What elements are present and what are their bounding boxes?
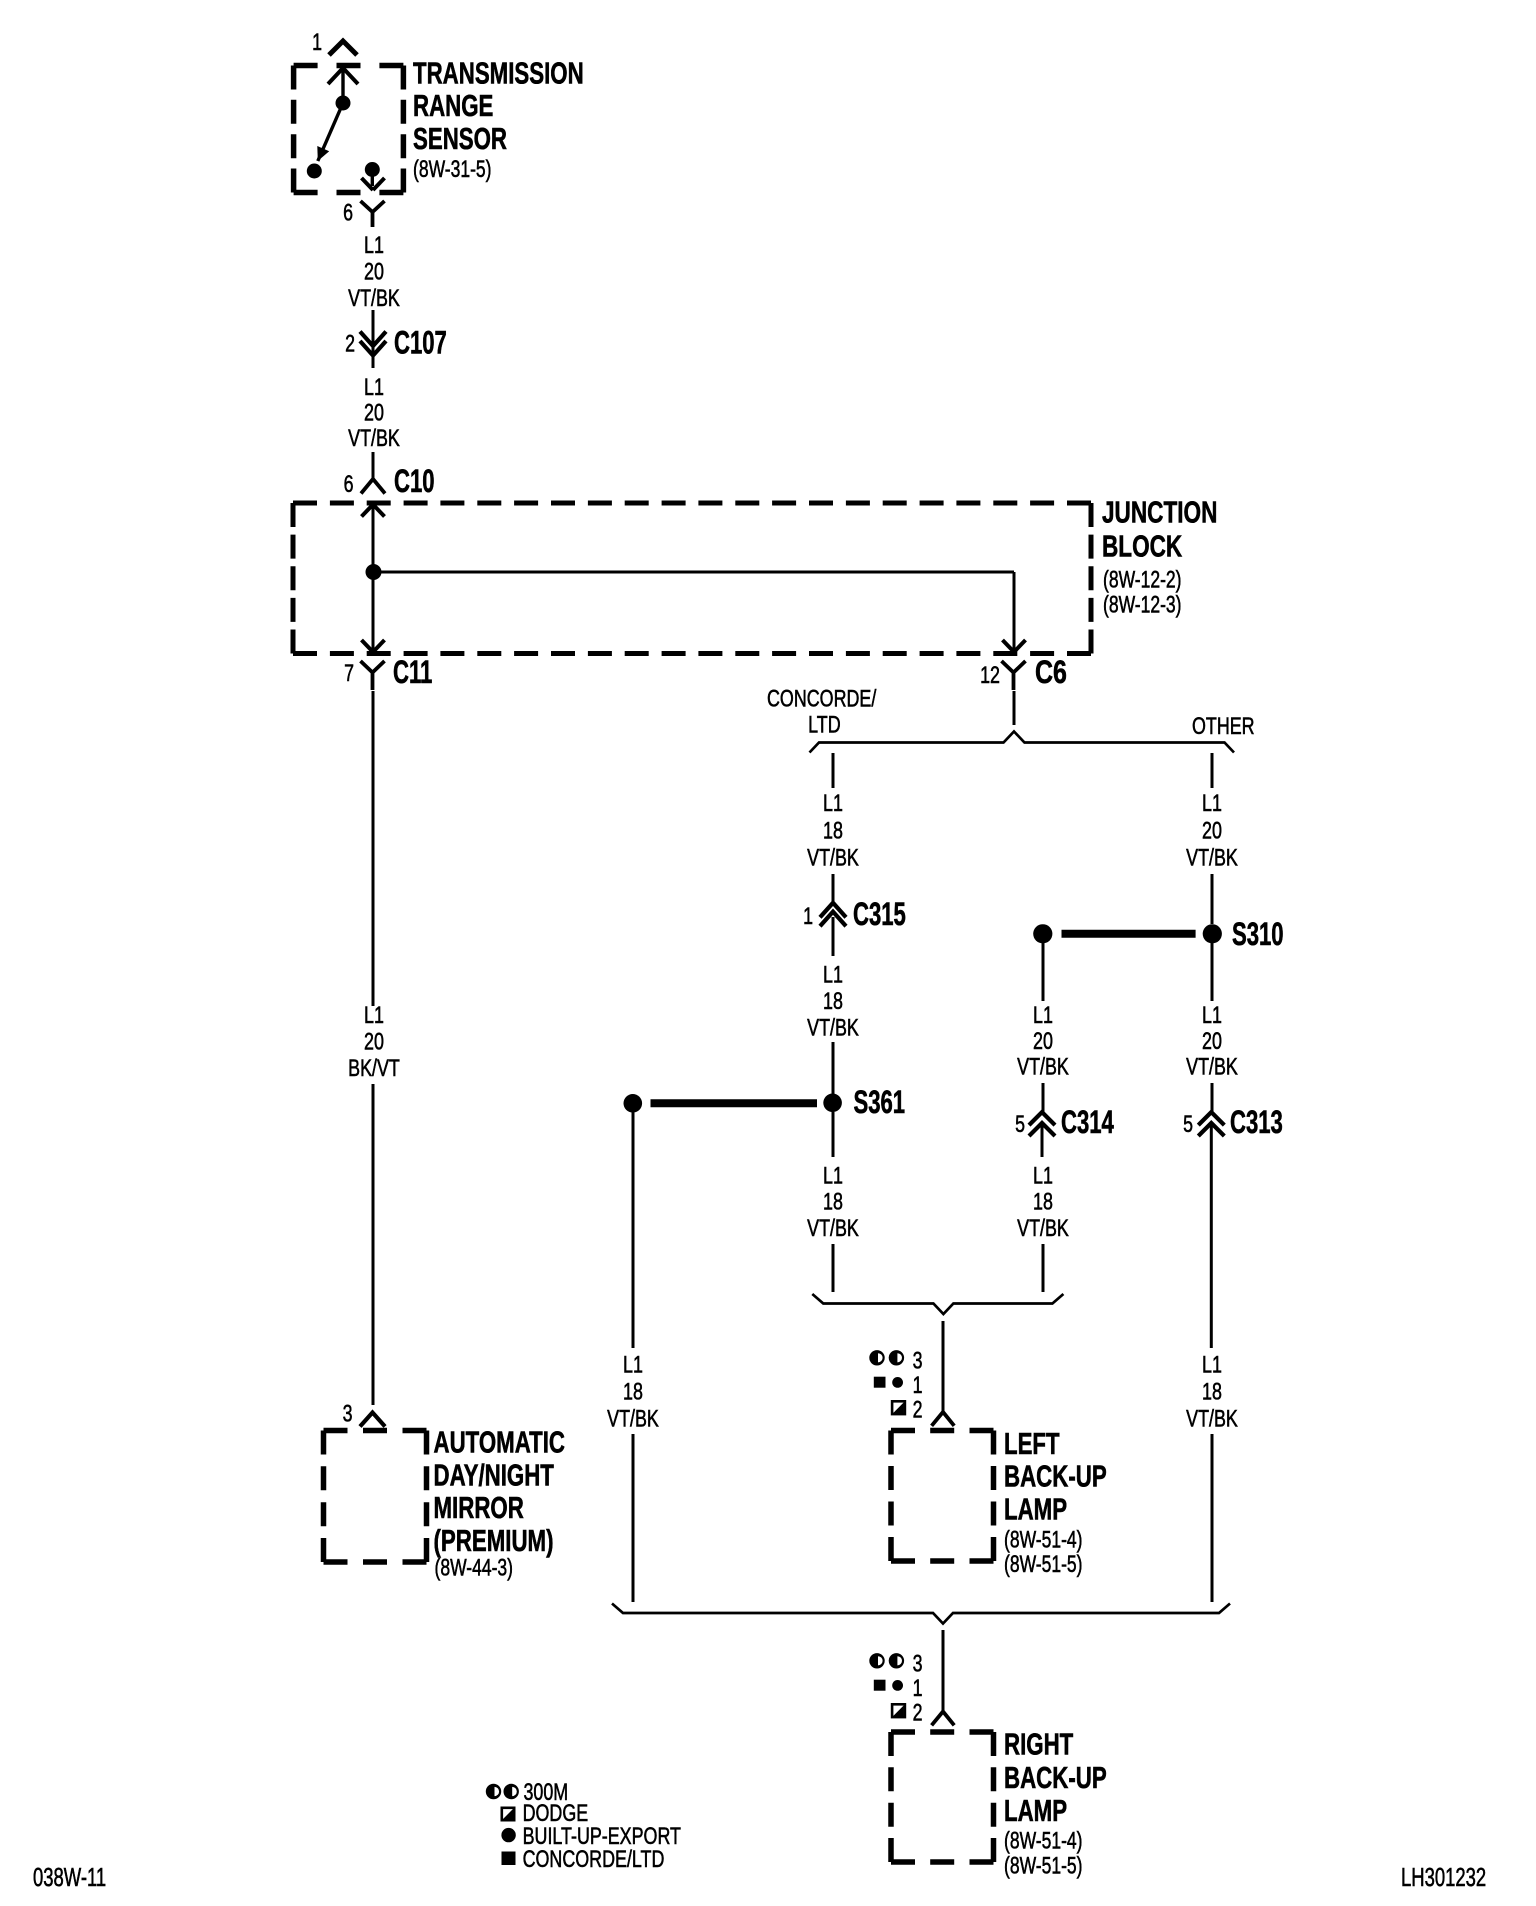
variant symbol DODGE pin 2 (left lamp)	[892, 1401, 905, 1414]
wire junction node down to C11	[372, 572, 375, 652]
splice S361 dot right	[823, 1094, 842, 1113]
svg-text:1: 1	[913, 1675, 923, 1702]
wire merge to right lamp	[942, 1630, 945, 1712]
wire split to C315	[832, 753, 835, 788]
svg-text:VT/BK: VT/BK	[348, 425, 400, 452]
svg-text:L1: L1	[1202, 790, 1222, 817]
connector chevron at mirror box	[360, 1413, 385, 1427]
svg-text:2: 2	[345, 331, 355, 358]
svg-text:LAMP: LAMP	[1004, 1493, 1067, 1527]
wire S361 left to bottom merge brace	[632, 1434, 635, 1602]
bottom merge brace to right back-up lamp	[612, 1604, 1230, 1624]
wire above C314	[1042, 1083, 1045, 1112]
svg-text:OTHER: OTHER	[1192, 713, 1255, 740]
svg-text:18: 18	[623, 1379, 643, 1406]
svg-text:C6: C6	[1035, 654, 1067, 690]
svg-text:18: 18	[823, 1189, 843, 1216]
svg-text:C315: C315	[853, 896, 906, 932]
legend symbol CONCORDE/LTD	[502, 1852, 516, 1866]
svg-text:3: 3	[913, 1651, 923, 1678]
wire pin6 to sensor bottom edge	[371, 170, 374, 187]
splice S310 dot right	[1203, 924, 1222, 943]
wire above C315	[832, 874, 835, 902]
junction node dot	[366, 564, 382, 580]
svg-text:S361: S361	[854, 1084, 906, 1120]
svg-text:VT/BK: VT/BK	[1017, 1215, 1069, 1242]
svg-text:5: 5	[1015, 1111, 1025, 1138]
svg-text:CONCORDE/: CONCORDE/	[767, 686, 876, 713]
variant symbols 300M pin 3 (right lamp)	[869, 1653, 884, 1668]
svg-text:L1: L1	[823, 1163, 843, 1190]
svg-text:LH301232: LH301232	[1401, 1862, 1486, 1892]
svg-text:S310: S310	[1232, 916, 1284, 952]
wire C6 down to split	[1013, 691, 1016, 725]
svg-text:C107: C107	[394, 325, 447, 361]
svg-text:18: 18	[823, 988, 843, 1015]
svg-text:(8W-51-5): (8W-51-5)	[1004, 1551, 1083, 1578]
svg-text:20: 20	[364, 259, 384, 286]
svg-text:RANGE: RANGE	[413, 89, 493, 123]
svg-text:CONCORDE/LTD: CONCORDE/LTD	[523, 1846, 665, 1873]
svg-text:LTD: LTD	[808, 712, 841, 739]
connector fork into left lamp	[932, 1412, 955, 1426]
connector C11 Y below junction block	[361, 661, 385, 690]
svg-text:038W-11: 038W-11	[33, 1862, 106, 1892]
svg-text:VT/BK: VT/BK	[807, 845, 859, 872]
svg-text:(8W-31-5): (8W-31-5)	[413, 156, 492, 183]
connector C6 Y below junction block	[1002, 661, 1026, 690]
svg-text:L1: L1	[1202, 1352, 1222, 1379]
arrow down at C6 inside junction block	[1003, 640, 1026, 652]
svg-text:RIGHT: RIGHT	[1004, 1728, 1074, 1762]
svg-text:6: 6	[344, 471, 354, 498]
wire above S310	[1211, 874, 1214, 924]
svg-text:20: 20	[1033, 1028, 1053, 1055]
in-line connector C107 double chevron	[360, 332, 386, 347]
wire above C313	[1211, 1083, 1214, 1112]
switch common contact dot	[336, 96, 351, 111]
svg-text:L1: L1	[364, 374, 384, 401]
svg-text:18: 18	[1202, 1379, 1222, 1406]
wire pin1 into sensor	[341, 69, 344, 103]
variant symbols 300M pin 3 (left lamp)	[869, 1350, 884, 1365]
svg-text:VT/BK: VT/BK	[348, 285, 400, 312]
wire S361 down	[832, 1112, 835, 1157]
svg-text:(8W-51-4): (8W-51-4)	[1004, 1527, 1083, 1554]
wire down to mirror	[372, 1084, 375, 1405]
svg-text:3: 3	[913, 1348, 923, 1375]
svg-text:1: 1	[803, 903, 813, 930]
svg-text:LEFT: LEFT	[1004, 1427, 1060, 1461]
wire junction to C6	[1013, 572, 1016, 652]
svg-text:JUNCTION: JUNCTION	[1102, 496, 1217, 530]
svg-text:5: 5	[1183, 1111, 1193, 1138]
legend symbol 300M	[486, 1784, 501, 1799]
svg-text:6: 6	[343, 200, 353, 227]
legend symbol BUILT-UP-EXPORT	[501, 1828, 515, 1842]
svg-text:C313: C313	[1230, 1104, 1283, 1140]
svg-text:L1: L1	[364, 1002, 384, 1029]
switch blade arrowhead	[317, 146, 329, 161]
svg-text:(8W-12-2): (8W-12-2)	[1103, 567, 1182, 594]
wire S310 right down	[1211, 943, 1214, 1001]
connector Y below sensor	[361, 201, 385, 227]
svg-text:2: 2	[913, 1700, 923, 1727]
svg-text:L1: L1	[823, 962, 843, 989]
wire C313 down long	[1210, 1126, 1213, 1348]
svg-text:VT/BK: VT/BK	[807, 1215, 859, 1242]
merge brace to left back-up lamp	[812, 1294, 1063, 1314]
svg-text:BK/VT: BK/VT	[348, 1055, 400, 1082]
connector fork into right lamp	[932, 1712, 955, 1726]
wire merge to left lamp	[942, 1321, 945, 1412]
arrow up at sensor top edge	[328, 68, 358, 84]
splice S361 bus line	[651, 1099, 818, 1107]
left back-up lamp dashed box	[891, 1428, 994, 1434]
svg-text:VT/BK: VT/BK	[1186, 845, 1238, 872]
wire C11 down	[372, 691, 375, 1006]
svg-text:VT/BK: VT/BK	[807, 1015, 859, 1042]
wire to merge brace	[832, 1244, 835, 1292]
svg-text:VT/BK: VT/BK	[1017, 1054, 1069, 1081]
svg-text:L1: L1	[1202, 1002, 1222, 1029]
wire C315 to S361	[832, 1042, 835, 1094]
variant symbols pin 1 (left lamp)	[874, 1377, 886, 1388]
junction block dashed box	[293, 501, 1091, 506]
svg-text:(PREMIUM): (PREMIUM)	[434, 1524, 554, 1558]
svg-text:20: 20	[364, 400, 384, 427]
wire C313 to bottom merge brace	[1211, 1434, 1214, 1602]
in-line connector C314 double chevron	[1029, 1112, 1055, 1125]
switch contact dot lower-left	[307, 164, 322, 179]
svg-text:BACK-UP: BACK-UP	[1004, 1460, 1107, 1494]
wire split to S310	[1211, 753, 1214, 788]
svg-text:(8W-12-3): (8W-12-3)	[1103, 592, 1182, 619]
svg-text:(8W-51-4): (8W-51-4)	[1004, 1828, 1083, 1855]
svg-text:DAY/NIGHT: DAY/NIGHT	[434, 1458, 555, 1492]
splice S310 bus line	[1062, 930, 1196, 938]
svg-text:BLOCK: BLOCK	[1102, 530, 1182, 564]
svg-text:(8W-44-3): (8W-44-3)	[435, 1555, 514, 1582]
legend symbol DODGE	[502, 1808, 514, 1820]
svg-text:2: 2	[913, 1397, 923, 1424]
svg-text:(8W-51-5): (8W-51-5)	[1004, 1853, 1083, 1880]
svg-text:VT/BK: VT/BK	[1186, 1054, 1238, 1081]
svg-text:18: 18	[823, 817, 843, 844]
junction block horizontal wire	[373, 571, 1014, 574]
svg-text:7: 7	[344, 660, 354, 687]
wire C10 down to junction node	[372, 505, 375, 573]
in-line connector C315 double chevron	[820, 903, 846, 918]
arrow up into junction block at C10	[362, 505, 385, 517]
svg-text:3: 3	[343, 1401, 353, 1428]
svg-text:L1: L1	[364, 232, 384, 259]
svg-text:C11: C11	[393, 654, 432, 690]
svg-text:L1: L1	[1033, 1163, 1053, 1190]
transmission range sensor dashed box	[294, 63, 404, 69]
right back-up lamp dashed box	[891, 1729, 994, 1735]
connector C10 fork	[361, 479, 385, 494]
wire C314 to merge brace	[1042, 1244, 1045, 1292]
automatic day/night mirror dashed box	[324, 1428, 427, 1434]
wire S361 left down	[632, 1112, 635, 1348]
switch contact dot pin 6	[365, 162, 380, 177]
svg-text:VT/BK: VT/BK	[1186, 1405, 1238, 1432]
svg-text:L1: L1	[823, 790, 843, 817]
svg-text:18: 18	[1033, 1189, 1053, 1216]
svg-text:AUTOMATIC: AUTOMATIC	[434, 1426, 566, 1460]
svg-text:MIRROR: MIRROR	[434, 1491, 524, 1525]
splice S310 dot left	[1033, 924, 1052, 943]
svg-text:SENSOR: SENSOR	[413, 122, 507, 156]
svg-text:BACK-UP: BACK-UP	[1004, 1761, 1107, 1795]
svg-text:1: 1	[312, 29, 322, 56]
arrow down at sensor bottom edge	[362, 178, 385, 190]
wire C107 to C10	[372, 452, 375, 479]
switch blade wire	[318, 103, 343, 161]
svg-text:LAMP: LAMP	[1004, 1794, 1067, 1828]
svg-text:20: 20	[364, 1028, 384, 1055]
splice S361 dot left	[624, 1094, 643, 1113]
svg-text:C314: C314	[1061, 1104, 1114, 1140]
arrow down at C11 inside junction block	[362, 640, 385, 652]
svg-text:TRANSMISSION: TRANSMISSION	[413, 57, 584, 91]
variant symbols pin 1 (right lamp)	[874, 1680, 886, 1691]
split brace under C6	[810, 732, 1235, 753]
svg-text:C10: C10	[394, 463, 435, 499]
wire S310 left down	[1042, 943, 1045, 1001]
connector chevron above transmission range sensor	[329, 41, 357, 55]
svg-text:20: 20	[1202, 817, 1222, 844]
wire sensor to C107	[372, 310, 375, 355]
in-line connector C313 double chevron	[1198, 1112, 1224, 1125]
svg-text:VT/BK: VT/BK	[607, 1405, 659, 1432]
svg-text:12: 12	[980, 662, 1000, 689]
svg-text:20: 20	[1202, 1028, 1222, 1055]
variant symbol DODGE pin 2 (right lamp)	[892, 1704, 905, 1717]
svg-text:L1: L1	[623, 1352, 643, 1379]
svg-text:L1: L1	[1033, 1002, 1053, 1029]
svg-text:1: 1	[913, 1372, 923, 1399]
